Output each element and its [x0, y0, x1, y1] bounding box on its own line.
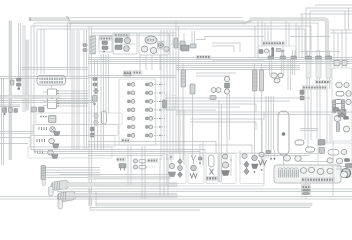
wire — [316, 50, 318, 56]
ignition box — [139, 33, 169, 55]
connector cap 4 — [268, 56, 274, 59]
switch group box 5 — [240, 154, 264, 184]
relay RA — [31, 107, 37, 112]
bus wire — [0, 198, 352, 200]
buzzer — [119, 164, 126, 169]
wire — [169, 30, 171, 160]
bar 1 — [303, 189, 310, 191]
solenoid — [225, 83, 230, 88]
bus wire — [34, 152, 200, 159]
flasher X — [338, 110, 346, 118]
resistor ladder — [342, 100, 345, 113]
horn ring big — [341, 168, 350, 177]
wire — [283, 59, 285, 75]
relay K4 — [319, 148, 325, 154]
wire — [22, 25, 24, 112]
injector circle 8 — [149, 83, 153, 87]
relay K2 — [102, 46, 108, 50]
wire — [300, 130, 318, 132]
harness band top right — [250, 18, 329, 57]
band end cap — [29, 17, 31, 21]
horn H3 — [48, 150, 54, 155]
wings g6 — [259, 160, 267, 165]
wire — [345, 30, 347, 68]
wire — [175, 21, 177, 153]
wire — [294, 59, 296, 75]
pin — [103, 51, 105, 53]
horn ring left — [318, 166, 326, 174]
switch assembly outer box — [167, 153, 265, 186]
junction — [93, 103, 95, 105]
connector pillar B — [190, 84, 195, 94]
pin mark — [159, 92, 161, 94]
horn box 2 — [33, 125, 118, 136]
bus wire — [264, 155, 310, 157]
lamp capsule 4 — [306, 147, 315, 152]
wire — [172, 30, 174, 160]
wire — [341, 30, 343, 68]
pillar hatch — [181, 73, 186, 82]
lamp L10 — [133, 165, 137, 169]
wire — [326, 50, 328, 56]
bus wire — [92, 32, 176, 34]
harness band bottom 3 — [88, 177, 170, 180]
connector pillar A — [181, 70, 186, 87]
arrowhead 1 — [270, 158, 272, 161]
wire — [190, 122, 256, 130]
wire — [100, 54, 102, 150]
sensor ball 2 — [216, 88, 221, 93]
harness band bottom 2 — [74, 193, 177, 197]
driver Q5 — [128, 117, 131, 120]
wire — [333, 30, 335, 68]
bus wire — [176, 111, 352, 113]
wire — [73, 30, 75, 150]
bus wire — [88, 57, 352, 59]
wire — [305, 177, 307, 184]
cluster label strip — [301, 178, 334, 182]
sensor G1 — [93, 78, 97, 81]
bus wire — [92, 34, 176, 36]
wire — [283, 50, 285, 56]
horn bell 3 — [52, 155, 59, 159]
dash lead — [154, 134, 165, 136]
wire — [230, 155, 232, 176]
coil T1 — [145, 36, 157, 44]
bus wire — [165, 97, 310, 99]
driver Q1 — [128, 83, 131, 86]
wire — [329, 114, 331, 143]
wire — [178, 26, 180, 153]
meter panel box — [332, 68, 352, 141]
switch S1 — [276, 49, 281, 52]
wire — [308, 183, 310, 185]
horn box 4 — [28, 147, 112, 158]
wire — [0, 131, 33, 133]
wire — [257, 21, 259, 58]
pin row upper — [40, 78, 64, 81]
wire — [141, 146, 143, 199]
injector circle 1 — [131, 83, 135, 87]
injector circle 10 — [149, 100, 153, 104]
wire — [43, 29, 45, 74]
band step link — [67, 17, 72, 25]
driver Q4 — [128, 109, 131, 112]
driver Q6 — [128, 126, 131, 129]
wire — [307, 89, 309, 147]
wire — [300, 161, 330, 163]
wire — [306, 7, 352, 9]
lamp capsule 1 — [336, 92, 344, 97]
driver Q9 — [146, 92, 149, 95]
horn box 3 — [30, 136, 115, 148]
band step back — [244, 20, 253, 23]
horn bell 2 — [53, 144, 60, 148]
wire — [270, 21, 272, 42]
wire — [90, 189, 200, 210]
wire — [0, 102, 95, 104]
harness wrap pillar — [90, 36, 96, 54]
dash lead — [154, 109, 165, 111]
wire — [319, 78, 321, 89]
pump P2 — [278, 73, 283, 78]
horn center left — [320, 169, 323, 172]
wire — [344, 11, 346, 30]
driver Q2 — [128, 92, 131, 95]
lamp capsule 2 — [335, 100, 342, 104]
switch S2 — [210, 96, 216, 100]
wire — [91, 26, 93, 206]
wire — [212, 59, 264, 61]
lamp g5a — [242, 154, 247, 159]
harness band bottom faint — [96, 203, 312, 206]
wire — [0, 106, 20, 108]
wire — [274, 150, 276, 160]
bus wire — [31, 150, 205, 154]
wire — [290, 59, 292, 90]
driver Q13 — [146, 126, 149, 129]
connector E1 — [41, 166, 46, 180]
diode chain — [94, 88, 99, 94]
wire — [298, 26, 300, 58]
fuse box small 2 — [342, 61, 347, 66]
junction — [17, 87, 20, 90]
control box — [113, 33, 137, 54]
lamp g1 — [169, 163, 174, 168]
wire — [86, 30, 88, 150]
wire — [226, 94, 228, 160]
wire — [315, 4, 352, 6]
wire — [329, 78, 331, 89]
horn H2 — [49, 138, 55, 143]
sensor body — [163, 100, 167, 108]
lamp capsule 3 — [295, 140, 304, 145]
wire — [270, 150, 272, 160]
bus wire — [22, 68, 88, 70]
label — [302, 185, 310, 188]
pin c — [45, 116, 47, 118]
capsule tail 2 — [58, 200, 63, 210]
wire — [0, 143, 28, 145]
wire — [319, 50, 321, 56]
lamp g1b — [178, 166, 183, 171]
wire — [166, 30, 168, 160]
wire — [309, 50, 311, 56]
harness band left — [9, 21, 11, 160]
pin — [57, 98, 58, 99]
wire — [306, 78, 308, 89]
module box — [258, 46, 296, 59]
arrowhead 2 — [274, 158, 276, 161]
pin wire — [57, 105, 89, 107]
fuse element — [282, 132, 286, 136]
pin separator — [45, 78, 48, 84]
pin separator — [50, 78, 53, 84]
pin separator — [47, 78, 50, 84]
driver Q10 — [146, 100, 149, 103]
connector pillar C — [253, 70, 258, 91]
bus wire — [88, 77, 176, 79]
pump P1 — [271, 73, 277, 78]
wire — [95, 191, 97, 206]
bus wire — [57, 191, 352, 193]
coil T2 — [141, 46, 148, 52]
driver Q12 — [146, 117, 149, 120]
wire — [319, 89, 321, 147]
bus wire — [0, 196, 352, 198]
ground strap — [181, 45, 189, 51]
harness band top left — [30, 18, 68, 21]
pin wire — [43, 100, 48, 102]
wire — [218, 100, 220, 182]
pin separator — [42, 78, 45, 84]
instrument cluster outline — [274, 165, 341, 183]
wire — [300, 128, 318, 130]
connector cap 3 — [326, 56, 332, 60]
pin wire — [43, 96, 48, 98]
wire — [300, 51, 340, 53]
wire — [120, 43, 135, 45]
bell g4 — [222, 171, 230, 176]
pin wire — [43, 105, 48, 107]
lamp g5b2 — [252, 155, 258, 160]
wire — [221, 104, 223, 182]
wire — [192, 94, 194, 160]
injector circle 4 — [131, 108, 135, 112]
wire — [90, 207, 310, 209]
connector pillar — [174, 38, 178, 48]
pin — [199, 162, 201, 164]
connector cap 5 — [280, 56, 286, 59]
pin mark — [159, 135, 161, 137]
wire — [103, 54, 105, 150]
fuse F4 — [300, 96, 304, 100]
wire — [36, 29, 38, 75]
wire — [159, 158, 161, 196]
fuse box small — [334, 61, 340, 66]
diode chain 2 — [93, 113, 98, 119]
band top edge line — [70, 16, 243, 18]
pin — [57, 103, 58, 104]
ladder hatch 3 — [333, 102, 336, 112]
lamp L2 — [341, 149, 347, 154]
dash lead — [154, 92, 165, 94]
wire — [183, 110, 185, 165]
motor M1 — [124, 46, 130, 52]
diode block — [259, 50, 263, 54]
switch S5 — [266, 151, 271, 154]
wire — [37, 29, 305, 60]
wire — [268, 96, 270, 158]
label — [123, 71, 131, 74]
pin wire — [57, 98, 89, 100]
pin wire — [57, 93, 89, 95]
bus wire — [88, 145, 252, 153]
wire — [145, 55, 147, 70]
pin — [170, 156, 172, 158]
injector circle 6 — [131, 125, 135, 129]
wire — [329, 50, 331, 56]
fuse — [124, 74, 131, 77]
pin b — [43, 116, 45, 118]
wire — [129, 83, 132, 85]
diamond g5 — [244, 161, 249, 168]
junction — [282, 50, 284, 52]
wire — [330, 29, 352, 31]
wire — [60, 174, 176, 176]
pin wire — [46, 169, 101, 171]
lamp L4 — [336, 158, 342, 164]
connector cap 1 — [306, 56, 312, 60]
sensor G4 — [91, 127, 95, 131]
wire — [78, 30, 80, 150]
pin wire — [46, 172, 101, 174]
lamp capsule R1 — [328, 150, 339, 156]
buzzer legs — [121, 168, 125, 171]
wire — [290, 36, 330, 38]
wire — [1, 78, 3, 165]
breaker — [11, 80, 15, 85]
wire — [300, 13, 352, 15]
label — [116, 158, 125, 161]
igniter ring — [158, 43, 163, 48]
driver Q3 — [128, 100, 131, 103]
sender — [334, 108, 339, 112]
resistor ladder 2 — [337, 123, 340, 132]
pin wire — [43, 91, 48, 93]
wire — [239, 150, 241, 165]
wire — [69, 23, 71, 76]
dark g5 — [252, 164, 259, 169]
injector circle 11 — [149, 108, 153, 112]
pin — [57, 93, 58, 94]
bus wire — [176, 65, 300, 67]
wire — [305, 8, 307, 55]
injector circle 14 — [149, 134, 153, 138]
horn bell 1 — [54, 132, 61, 136]
valve V2 — [224, 89, 229, 94]
igniter unit — [158, 42, 165, 50]
wire — [83, 30, 85, 150]
driver Q14 — [146, 134, 149, 137]
harness band — [26, 40, 29, 110]
wire — [196, 75, 230, 77]
wire — [0, 104, 20, 106]
cluster lamp 3 — [301, 168, 307, 174]
wire — [179, 110, 181, 165]
injector circle 3 — [131, 100, 135, 104]
bus wire — [88, 59, 352, 61]
lamp g2 — [191, 165, 197, 171]
wire — [264, 23, 266, 46]
wire — [182, 87, 184, 160]
label strip — [302, 86, 326, 89]
wire — [190, 112, 264, 119]
wire — [139, 55, 141, 70]
wire — [129, 126, 132, 128]
horn center big — [344, 171, 347, 174]
switch group box 3 — [206, 154, 218, 184]
resistor bar — [272, 48, 274, 57]
wire — [94, 60, 96, 150]
junction — [4, 113, 6, 115]
wire — [20, 23, 22, 78]
wire — [67, 23, 69, 76]
cluster scallop top — [278, 168, 298, 169]
cluster pin hatch lines — [280, 170, 298, 178]
wire — [194, 31, 196, 44]
pin separator — [40, 78, 43, 84]
lamp L9 — [133, 159, 137, 163]
label strip — [315, 80, 330, 83]
pin — [57, 100, 58, 101]
flasher unit — [338, 110, 346, 118]
connector pillar D — [260, 70, 264, 91]
wire — [212, 46, 234, 52]
label — [114, 34, 129, 37]
wire — [129, 109, 132, 111]
wire — [30, 26, 32, 150]
wire — [301, 14, 303, 58]
wire — [183, 33, 185, 41]
wire — [316, 89, 318, 139]
wire — [88, 26, 90, 206]
wire — [127, 146, 129, 185]
wire — [261, 64, 263, 71]
wire — [144, 146, 146, 199]
ladder hatch — [342, 102, 345, 110]
pin — [230, 159, 232, 161]
relay coil — [264, 49, 268, 53]
wire — [330, 32, 352, 34]
lamp g4a — [222, 154, 227, 159]
diode chain 3 — [93, 120, 98, 126]
capsule connector big 1 — [50, 180, 69, 191]
wire — [33, 23, 35, 60]
relay K3 — [115, 45, 122, 50]
pillar hatch 2 — [253, 74, 258, 86]
fuse F3 — [300, 90, 304, 95]
diamond g1a — [178, 159, 183, 165]
switch g2 — [199, 157, 203, 160]
wire — [288, 23, 290, 46]
label — [100, 37, 111, 40]
capsule connector — [102, 111, 107, 124]
E1 hatch — [41, 168, 46, 176]
wire — [18, 23, 20, 78]
harness band top mid — [69, 21, 244, 24]
gauge 3 — [346, 91, 351, 97]
